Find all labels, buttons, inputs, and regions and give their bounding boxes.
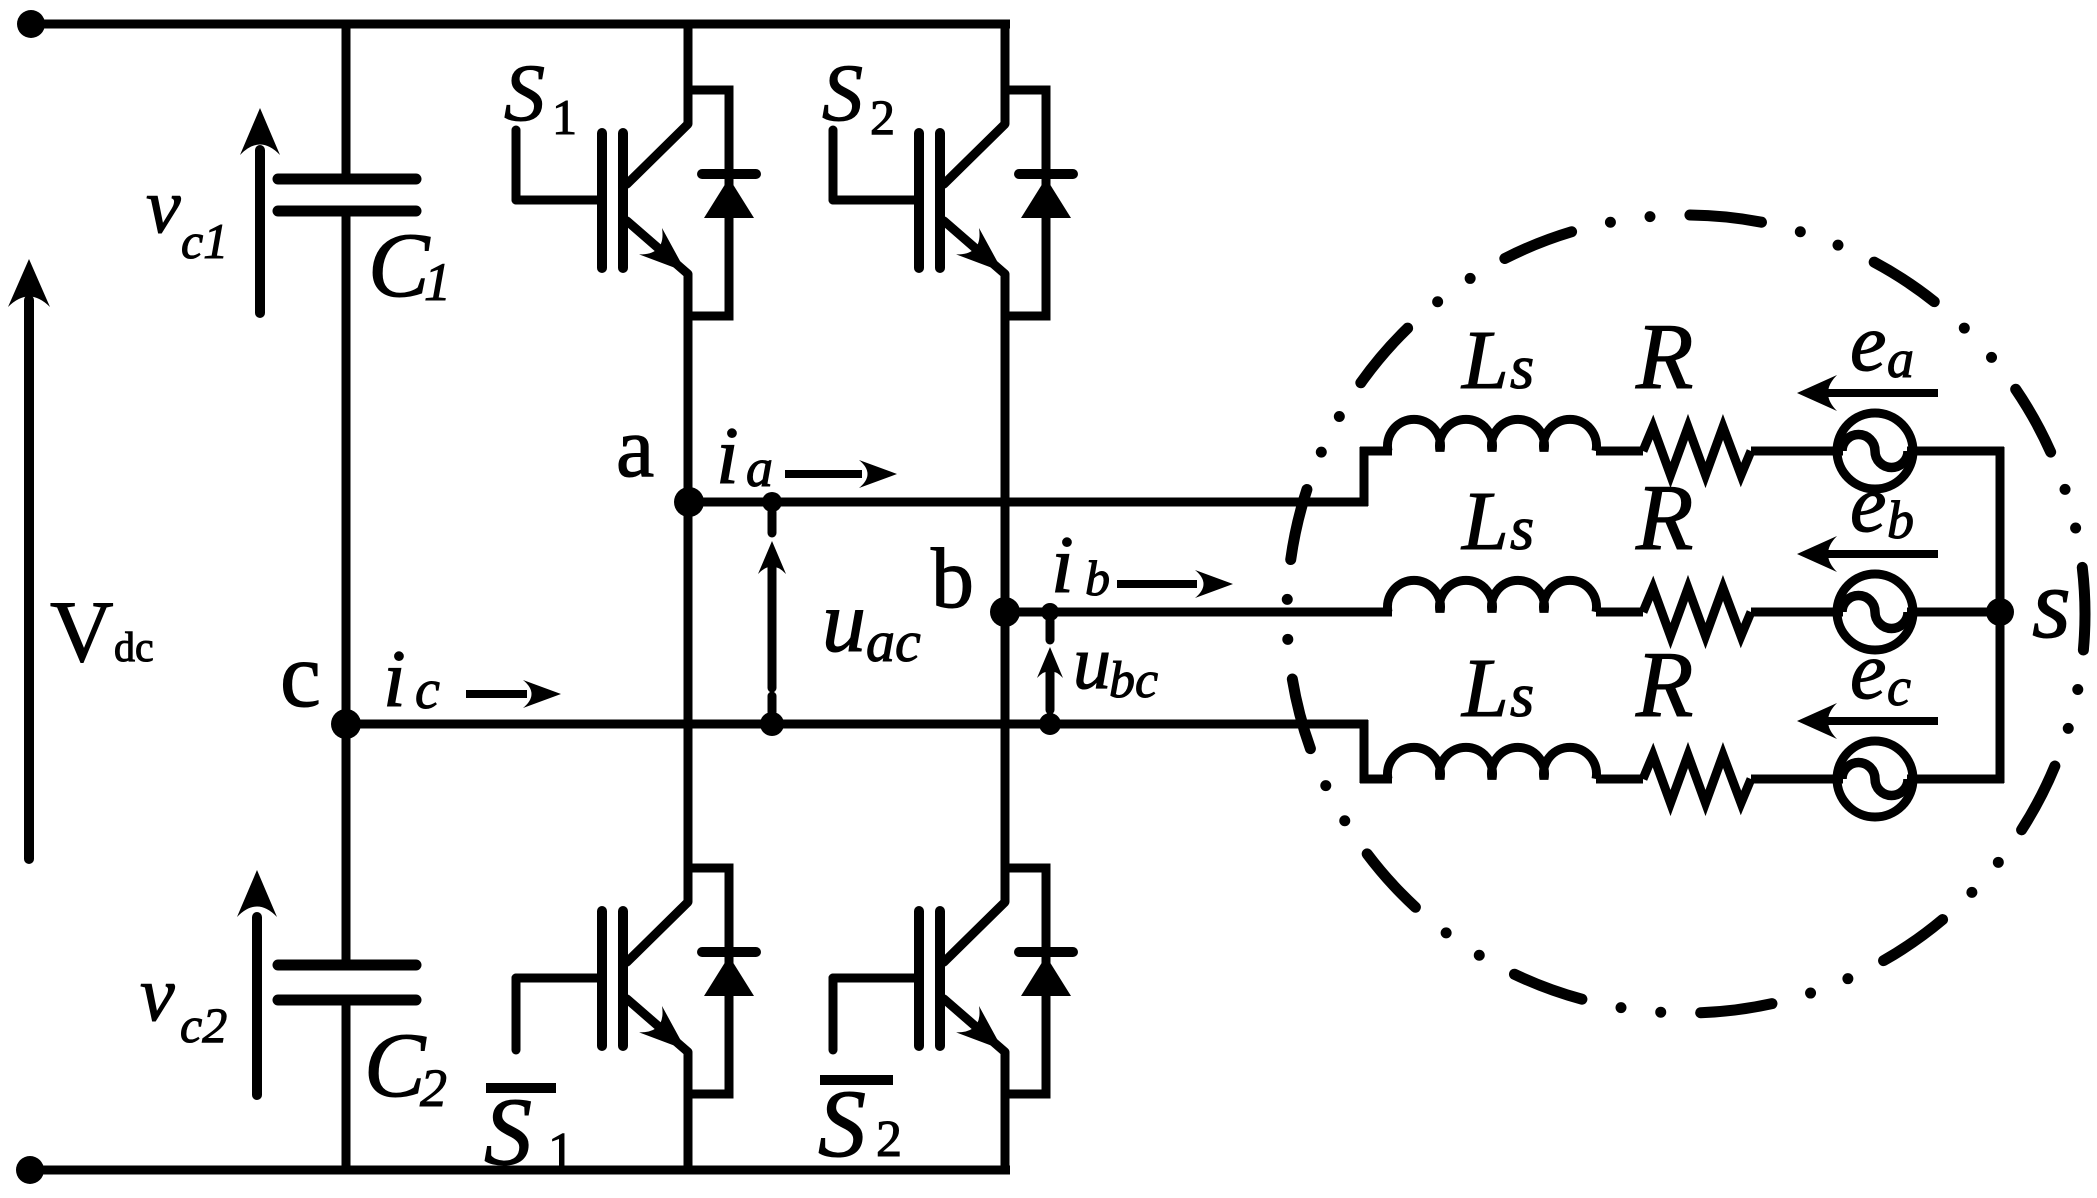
label s bbox=[2032, 548, 2071, 659]
label vc2 bbox=[140, 950, 227, 1053]
diode D2bar bbox=[1005, 868, 1073, 1094]
wire leg1 upper bbox=[684, 24, 693, 124]
voltage arrow ubc bbox=[1037, 603, 1063, 735]
svg-text:c: c bbox=[415, 659, 440, 721]
wire R-source phase a bbox=[1751, 447, 1843, 456]
wire neutral vertical bbox=[1996, 447, 2005, 783]
arrow eb bbox=[1797, 536, 1938, 572]
svg-text:b: b bbox=[1085, 550, 1110, 606]
svg-text:e: e bbox=[1850, 458, 1886, 549]
ac source ec bbox=[1837, 741, 1913, 817]
label R phase a bbox=[1635, 305, 1693, 409]
svg-text:i: i bbox=[716, 410, 739, 501]
svg-text:1: 1 bbox=[552, 89, 577, 145]
label ic bbox=[383, 633, 440, 724]
svg-text:2: 2 bbox=[870, 89, 895, 145]
ac source ea bbox=[1837, 413, 1913, 489]
node b bbox=[990, 597, 1020, 627]
resistor R phase b bbox=[1643, 588, 1751, 636]
arrow ec bbox=[1797, 703, 1938, 739]
arrow ia current bbox=[785, 460, 897, 488]
svg-text:s: s bbox=[2032, 548, 2071, 659]
svg-text:2: 2 bbox=[876, 1111, 902, 1168]
svg-text:C: C bbox=[364, 1014, 427, 1116]
wire Ls-R phase b bbox=[1596, 608, 1643, 617]
wire source-right phase b bbox=[1907, 608, 2004, 617]
diode D1bar bbox=[688, 868, 756, 1094]
node dc+ terminal bbox=[17, 10, 45, 38]
svg-text:ac: ac bbox=[866, 609, 921, 674]
svg-text:R: R bbox=[1635, 466, 1693, 570]
wire capacitor branch lower bbox=[342, 1000, 351, 1170]
wire leg1 middle bbox=[684, 274, 693, 902]
svg-text:s: s bbox=[1510, 495, 1534, 563]
svg-text:S: S bbox=[818, 1070, 866, 1177]
wire phase b bbox=[1005, 608, 1392, 617]
label Vdc bbox=[50, 584, 154, 681]
arrow ic current bbox=[466, 680, 561, 708]
svg-text:L: L bbox=[1461, 314, 1509, 407]
wire source-right phase a bbox=[1907, 447, 2004, 456]
node c bbox=[331, 709, 361, 739]
svg-text:L: L bbox=[1461, 642, 1509, 735]
arrow vc1 voltage bbox=[240, 108, 280, 313]
node a bbox=[674, 487, 704, 517]
capacitor C2 bbox=[278, 965, 416, 1000]
label ubc bbox=[1073, 621, 1158, 709]
resistor R phase a bbox=[1643, 427, 1751, 475]
svg-text:dc: dc bbox=[114, 625, 154, 671]
diode D1 bbox=[688, 90, 756, 316]
wire phase c bbox=[346, 720, 1368, 729]
label vc1 bbox=[146, 162, 228, 269]
svg-text:S: S bbox=[822, 47, 863, 138]
svg-text:L: L bbox=[1461, 475, 1509, 568]
transistor S2bar bbox=[833, 902, 1005, 1052]
svg-text:1: 1 bbox=[548, 1123, 574, 1180]
svg-text:c2: c2 bbox=[180, 997, 227, 1053]
node dc- terminal bbox=[16, 1156, 44, 1184]
svg-text:u: u bbox=[822, 574, 866, 671]
grid boundary dash-dot circle bbox=[1287, 215, 2085, 1013]
label ia bbox=[716, 410, 773, 501]
label Ls phase a bbox=[1461, 314, 1534, 407]
svg-text:s: s bbox=[1510, 334, 1534, 402]
wire R-source phase b bbox=[1751, 608, 1843, 617]
label Ls phase b bbox=[1461, 475, 1534, 568]
svg-text:e: e bbox=[1850, 625, 1886, 716]
svg-text:S: S bbox=[484, 1078, 532, 1185]
node s bbox=[1986, 598, 2014, 626]
label ec bbox=[1850, 625, 1911, 717]
label C2 bbox=[364, 1014, 447, 1118]
svg-text:c: c bbox=[280, 624, 321, 726]
label uac bbox=[822, 574, 921, 674]
label S2 bbox=[822, 47, 895, 145]
diode D2 bbox=[1005, 90, 1073, 316]
wire R-source phase c bbox=[1751, 775, 1843, 784]
svg-text:2: 2 bbox=[420, 1058, 447, 1118]
inductor Ls phase b bbox=[1388, 580, 1597, 612]
label eb bbox=[1850, 458, 1914, 550]
wire Ls-R phase c bbox=[1596, 775, 1643, 784]
label ea bbox=[1850, 297, 1914, 389]
wire bottom dc bus bbox=[30, 1166, 1010, 1175]
wire phase a bbox=[689, 498, 1368, 507]
arrow ea bbox=[1797, 375, 1938, 411]
svg-text:R: R bbox=[1635, 633, 1693, 737]
label Ls phase c bbox=[1461, 642, 1534, 735]
svg-text:i: i bbox=[1051, 519, 1074, 610]
svg-text:1: 1 bbox=[424, 252, 451, 312]
svg-text:s: s bbox=[1510, 662, 1534, 730]
wire phase a step bbox=[1360, 447, 1392, 506]
wire source-right phase c bbox=[1907, 775, 2004, 784]
wire capacitor branch upper bbox=[342, 24, 351, 179]
inductor Ls phase c bbox=[1388, 747, 1597, 779]
resistor R phase c bbox=[1643, 755, 1751, 803]
label S1 bbox=[504, 47, 577, 145]
wire top dc bus bbox=[31, 20, 1010, 29]
label c bbox=[280, 624, 321, 726]
capacitor C1 bbox=[278, 179, 416, 211]
svg-text:i: i bbox=[383, 633, 406, 724]
svg-text:v: v bbox=[140, 950, 175, 1037]
label a bbox=[616, 399, 654, 495]
wire leg2 middle bbox=[1001, 274, 1010, 902]
arrow vc2 voltage bbox=[237, 870, 277, 1095]
svg-text:e: e bbox=[1850, 297, 1886, 388]
label S1bar bbox=[484, 1078, 574, 1185]
svg-text:u: u bbox=[1073, 621, 1111, 705]
svg-text:c1: c1 bbox=[181, 213, 228, 269]
wire Ls-R phase a bbox=[1596, 447, 1643, 456]
inductor Ls phase a bbox=[1388, 419, 1597, 451]
svg-text:b: b bbox=[1887, 490, 1914, 550]
svg-text:S: S bbox=[504, 47, 545, 138]
label ib bbox=[1051, 519, 1110, 610]
svg-text:v: v bbox=[146, 162, 181, 249]
svg-text:bc: bc bbox=[1109, 652, 1158, 709]
svg-text:a: a bbox=[1887, 329, 1914, 389]
wire leg2 lower bbox=[1001, 1052, 1010, 1170]
wire phase c step bbox=[1360, 720, 1392, 783]
transistor S1 bbox=[516, 124, 688, 274]
label R phase c bbox=[1635, 633, 1693, 737]
arrow Vdc voltage bbox=[8, 259, 50, 859]
label b bbox=[931, 530, 974, 626]
transistor S2 bbox=[833, 124, 1005, 274]
wire capacitor branch middle bbox=[342, 211, 351, 965]
label R phase b bbox=[1635, 466, 1693, 570]
wire leg2 upper bbox=[1001, 24, 1010, 124]
svg-text:a: a bbox=[746, 438, 773, 498]
ac source eb bbox=[1837, 574, 1913, 650]
transistor S1bar bbox=[516, 902, 688, 1052]
label S2bar bbox=[818, 1070, 902, 1177]
voltage arrow uac bbox=[758, 492, 786, 736]
label C1 bbox=[368, 214, 451, 316]
svg-text:a: a bbox=[616, 399, 654, 495]
arrow ib current bbox=[1117, 570, 1233, 598]
svg-text:b: b bbox=[931, 530, 974, 626]
wire leg1 lower bbox=[684, 1052, 693, 1170]
svg-text:C: C bbox=[368, 214, 431, 316]
svg-text:R: R bbox=[1635, 305, 1693, 409]
svg-text:c: c bbox=[1887, 657, 1911, 717]
svg-text:V: V bbox=[50, 584, 114, 681]
